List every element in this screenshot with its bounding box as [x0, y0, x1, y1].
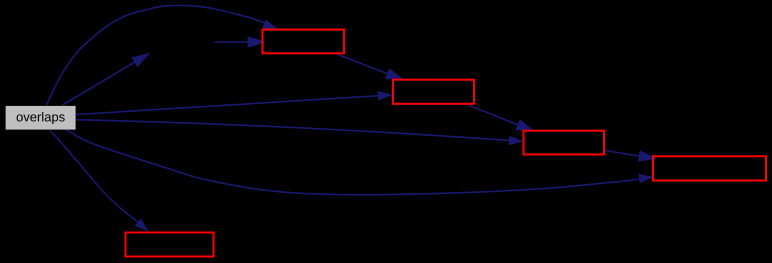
- node5 box4 (red border): [653, 156, 766, 180]
- wire node4->node5 (box3 to box4): [605, 151, 655, 161]
- wire overlaps->node1 (hidden node): [63, 54, 148, 105]
- node4 box3 (red border): [524, 131, 605, 155]
- wire overlaps->node3 (to box2 left edge): [76, 91, 393, 114]
- node overlaps (current function, gray): [6, 106, 76, 130]
- wire node1->node2 (horizontal arrow into box1): [214, 37, 264, 46]
- node3 box2 (red border): [393, 80, 474, 104]
- wire overlaps->node5 (long bottom curve to box4): [66, 130, 654, 195]
- wire overlaps->node4 (to box3 left edge): [76, 120, 524, 145]
- wire node2->node3 (box1 to box2): [338, 54, 403, 79]
- wire overlaps->node6 (down to box5): [50, 131, 149, 232]
- wire overlaps->node2 (big top arc): [47, 5, 279, 105]
- node2 box1 (red border, truncated callee): [263, 30, 345, 54]
- node6 box5 (red border): [126, 233, 214, 257]
- wire node3->node4 (box2 to box3): [468, 105, 532, 131]
